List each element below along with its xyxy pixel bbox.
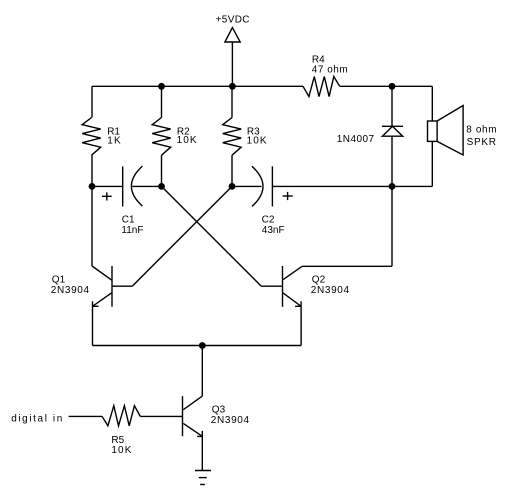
svg-text:10K: 10K	[247, 135, 268, 146]
svg-text:+5VDC: +5VDC	[216, 15, 250, 26]
svg-text:C1: C1	[122, 215, 135, 226]
node dot rail/R2	[158, 83, 165, 90]
svg-text:2N3904: 2N3904	[51, 285, 90, 296]
diode D1 1N4007	[382, 86, 403, 186]
resistor R4	[303, 77, 340, 97]
ground	[195, 471, 211, 485]
svg-text:C2: C2	[262, 215, 275, 226]
transistor Q2	[261, 186, 392, 345]
svg-text:10K: 10K	[111, 445, 132, 456]
wire digital in lead	[69, 415, 102, 417]
svg-text:Q2: Q2	[312, 275, 326, 286]
svg-text:47 ohm: 47 ohm	[312, 65, 348, 76]
wire cross-coupling C2/R3 node to Q1 base	[132, 186, 232, 286]
svg-text:Q3: Q3	[212, 405, 226, 416]
svg-text:10K: 10K	[177, 135, 198, 146]
node dot emitter rail/Q3	[199, 342, 206, 349]
svg-text:2N3904: 2N3904	[211, 415, 250, 426]
node dot C2/diode	[389, 183, 396, 190]
node dot rail/R3/+5V	[229, 83, 236, 90]
svg-text:1N4007: 1N4007	[337, 134, 375, 145]
speaker SPKR	[428, 86, 464, 186]
svg-text:43nF: 43nF	[262, 225, 285, 236]
svg-text:8 ohm: 8 ohm	[466, 125, 497, 136]
capacitor C1	[92, 166, 162, 206]
node dot R1/C1	[89, 183, 96, 190]
resistor R3	[223, 86, 242, 186]
resistor R5	[102, 406, 140, 426]
svg-text:1K: 1K	[107, 135, 122, 146]
resistor R2	[152, 86, 171, 186]
svg-text:2N3904: 2N3904	[311, 285, 350, 296]
wire R5 to Q3 base	[140, 415, 182, 417]
transistor Q3	[183, 346, 203, 471]
node dot R2/C1	[158, 183, 165, 190]
wire top rail right segment	[340, 85, 433, 87]
svg-text:11nF: 11nF	[121, 225, 143, 236]
power +5VDC symbol	[225, 28, 240, 87]
transistor Q1	[92, 186, 132, 345]
svg-text:Q1: Q1	[52, 275, 66, 286]
svg-text:SPKR: SPKR	[467, 137, 497, 148]
node dot rail/diode	[389, 83, 396, 90]
wire top rail left segment	[92, 85, 303, 87]
resistor R1	[82, 86, 101, 186]
wire emitter rail	[93, 345, 302, 347]
svg-text:digital in: digital in	[11, 414, 64, 425]
node dot R3/C2	[229, 183, 236, 190]
wire capacitor row to speaker column	[392, 185, 432, 187]
capacitor C2	[232, 166, 392, 206]
wire cross-coupling C1/R2 node to Q2 base	[162, 186, 262, 286]
